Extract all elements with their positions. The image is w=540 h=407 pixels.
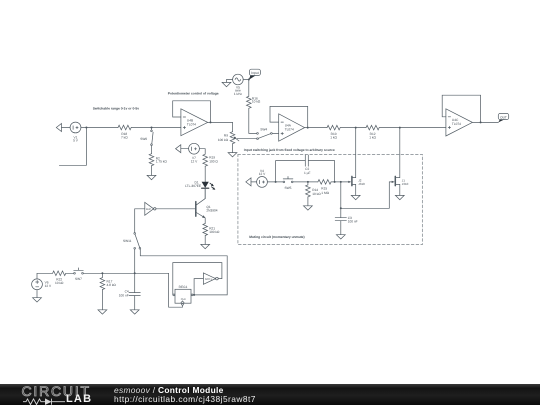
junction V1 stub (85, 127, 87, 129)
svg-text:1.75 kΩ: 1.75 kΩ (156, 160, 168, 164)
wire U4B output (208, 121, 233, 123)
svg-text:Potentiometer control of volta: Potentiometer control of voltage (168, 92, 219, 96)
wire R9 to ground (232, 144, 234, 153)
resistor R14 (306, 182, 311, 197)
dashed selection box (238, 154, 423, 244)
wire SW11 lower-left to button node (134, 249, 136, 273)
wire R15 to J2 gate (331, 181, 348, 183)
wire R19 to LED D1 (204, 166, 206, 182)
ground below R17 (98, 310, 107, 314)
op-amp U4C output stage (446, 109, 473, 136)
wire U4A feedback loop (270, 106, 308, 127)
svg-text:1 kΩ: 1 kΩ (330, 135, 337, 139)
junction Input node (248, 79, 250, 81)
footer url (114, 394, 256, 404)
wire R12 to U4C plus input (379, 127, 446, 129)
JFET J1 (394, 176, 396, 185)
junction SW0 branch (151, 127, 153, 129)
svg-text:12 V: 12 V (191, 159, 198, 163)
buffer BUF1 (145, 202, 154, 215)
wire SW5 to R15 (293, 181, 318, 183)
junction C2 branch (275, 181, 277, 183)
op-amp U4B (181, 109, 208, 136)
footer title (114, 385, 224, 395)
junction U4B output (210, 121, 212, 123)
ground below J1 source (395, 195, 404, 199)
logo resistor-diode squiggle (23, 397, 69, 407)
junction J1 drain node (399, 127, 401, 129)
wire C3 node down and across to J1 gate (341, 182, 392, 208)
wire U4C output (472, 121, 498, 123)
wire stub down-left from V1 node (59, 128, 86, 166)
wire REG1 D input feedback loop (173, 263, 222, 295)
resistor R12 (366, 125, 379, 130)
svg-text:5 V: 5 V (73, 139, 79, 143)
wire LED to Q1 collector (204, 188, 206, 199)
ground below R2 (147, 175, 156, 179)
svg-text:100 nF: 100 nF (348, 220, 358, 224)
resistor R18 (118, 125, 131, 130)
wire U4C feedback loop (442, 95, 480, 122)
ground below J2 source (351, 195, 360, 199)
wire R18 to U4B plus input (131, 127, 181, 129)
wire REG1 Q to loop (140, 249, 227, 295)
switch SW11 (134, 233, 136, 235)
label J2 J310 (358, 178, 365, 186)
wire V7 to R19 (199, 149, 205, 155)
svg-text:7 kΩ: 7 kΩ (121, 135, 128, 139)
wire R17 to ground (101, 290, 103, 310)
wire port to V4 (251, 181, 257, 183)
resistor R15 (318, 180, 331, 185)
voltage source V1 (70, 122, 81, 133)
capacitor C4 (129, 293, 140, 296)
svg-text:J310: J310 (402, 182, 409, 186)
wire NOT1 input from Q node (194, 279, 203, 295)
label SW4 (260, 128, 267, 132)
svg-text:1 kHz: 1 kHz (234, 92, 243, 96)
wire port to V1 (62, 127, 71, 129)
resistor R22 (53, 271, 66, 276)
wire BUF1 to Q1 base (156, 208, 195, 210)
svg-text:CLK: CLK (181, 298, 186, 301)
svg-text:J310: J310 (358, 182, 365, 186)
junction U4A output (307, 127, 309, 129)
ground below R14 (304, 206, 313, 210)
resistor R16 (247, 96, 252, 108)
wire SW4 to U4A plus input (272, 132, 278, 134)
wire R21 to ground (204, 236, 206, 245)
ground below R21 (201, 244, 210, 248)
svg-text:12 V: 12 V (259, 172, 266, 176)
port arrow at V4 (246, 178, 251, 186)
flag Input (249, 75, 256, 79)
logo CIRCUIT (22, 383, 91, 399)
JFET J2 gate arrow (348, 181, 351, 183)
svg-text:10 kΩ: 10 kΩ (55, 281, 64, 285)
wire port to V7 (181, 148, 189, 150)
wire SW7 to REG1 clock path (83, 272, 168, 274)
wire C4 (134, 273, 136, 292)
pushbutton SW7 (74, 272, 76, 274)
JFET J2 (351, 176, 353, 185)
port arrow at V7 (176, 145, 181, 153)
wire SW0 to R2 (151, 146, 153, 154)
resistor R21 (203, 224, 208, 236)
footer bar (0, 384, 540, 405)
svg-text:TL074: TL074 (285, 128, 294, 132)
wire R10 to R12 (340, 127, 366, 129)
label V5 sine 1 kHz (234, 85, 243, 96)
capacitor C3 (335, 218, 346, 221)
voltage source V4 (257, 177, 268, 188)
label J1 J310 (402, 178, 409, 186)
wire R14 to ground (307, 197, 309, 206)
potentiometer R9 (230, 132, 235, 144)
resistor R17 (100, 273, 105, 289)
label V4 12 V (259, 169, 266, 176)
switch SW0 (151, 130, 153, 132)
label SW0 (140, 137, 147, 141)
svg-text:12 V: 12 V (45, 284, 52, 288)
label D1 LTL-307EE (185, 180, 201, 188)
wire C4 to ground (134, 296, 136, 310)
junction Q node (193, 294, 195, 296)
label V1 5 V (73, 135, 79, 142)
wire R2 to ground (151, 166, 153, 176)
ground below R9 (228, 153, 237, 157)
junction C3 top (340, 207, 342, 209)
LED D1 (202, 182, 209, 188)
wire U4A output to R10 (305, 127, 327, 129)
junction C4 / SW11 branch (134, 272, 136, 274)
wire button node to REG1 clock (169, 273, 183, 307)
wire V1 to R18 (81, 127, 118, 129)
wire R16 to Input node (248, 80, 250, 97)
flip-flop REG1 (175, 289, 191, 303)
junction C3 branch (340, 181, 342, 183)
svg-text:OUT: OUT (500, 115, 507, 119)
ground at V5 (222, 82, 231, 86)
resistor R2 (149, 154, 154, 166)
svg-text:10 kΩ: 10 kΩ (252, 100, 261, 104)
svg-text:REG1: REG1 (179, 285, 188, 289)
wire C3 to ground (340, 221, 342, 235)
svg-text:1 MΩ: 1 MΩ (321, 191, 329, 195)
wire V6 to ground (36, 290, 38, 298)
port arrow at V1 negative terminal (56, 124, 61, 132)
junction U4C output (480, 121, 482, 123)
svg-text:TL074: TL074 (452, 122, 461, 126)
note: muting circuit text (249, 235, 304, 239)
ground below V6 (33, 298, 42, 302)
svg-text:SW0: SW0 (140, 137, 147, 141)
switch SW4 (257, 133, 259, 135)
label R16 10 kOhm (252, 96, 261, 103)
inverter NOT1 (203, 273, 215, 284)
wire SW4 upper terminal to R16 (249, 108, 257, 133)
JFET J1 gate arrow (392, 181, 395, 183)
svg-text:1 kΩ: 1 kΩ (369, 135, 376, 139)
wire output down to pot R9 (232, 122, 234, 131)
wire pot wiper to SW4 (237, 138, 257, 140)
wire R22 to SW7 (66, 272, 74, 274)
voltage source V7 (189, 143, 200, 154)
wire C2 loop left and top (276, 161, 306, 182)
svg-text:TL074: TL074 (187, 122, 196, 126)
wire C2 loop right (308, 161, 334, 182)
svg-text:SW4: SW4 (260, 128, 267, 132)
wire V6 to R22 (37, 273, 53, 279)
svg-text:100 kΩ: 100 kΩ (218, 138, 229, 142)
junction R14 branch (307, 181, 309, 183)
junction R17 branch (101, 272, 103, 274)
note: switchable range text (93, 106, 140, 110)
label V6 12 V (45, 281, 52, 289)
svg-text:Switchable range 0-1v or 0-5v: Switchable range 0-1v or 0-5v (93, 106, 140, 110)
note: potentiometer control of voltage (168, 92, 219, 96)
wire V4 to SW5 (267, 181, 283, 183)
svg-text:LTL-307EE: LTL-307EE (185, 184, 201, 188)
svg-text:NOT1: NOT1 (205, 278, 212, 281)
flag OUT (498, 119, 504, 122)
wire SW11 common up to BUF input (135, 209, 145, 233)
note: input switching jack text (244, 148, 335, 152)
voltage source V5 sine (233, 74, 244, 85)
wire V5 to ground (227, 80, 233, 83)
svg-text:Input switching jack from fixe: Input switching jack from fixed voltage … (244, 148, 335, 152)
resistor R10 (327, 125, 340, 130)
svg-text:4.8 kΩ: 4.8 kΩ (107, 283, 117, 287)
wire V5 to Input node (243, 79, 249, 81)
transistor Q1 (195, 202, 197, 217)
wire C3 (340, 208, 342, 217)
svg-text:100 nF: 100 nF (119, 294, 129, 298)
ground below C4 (130, 310, 139, 314)
svg-text:SW5: SW5 (285, 186, 292, 190)
label R9 100 kOhm (218, 134, 229, 142)
svg-text:100 Ω: 100 Ω (209, 159, 218, 163)
voltage source V6 (32, 279, 43, 290)
svg-text:SW7: SW7 (75, 277, 82, 281)
logo LAB (66, 393, 92, 405)
resistor R19 (203, 154, 208, 166)
ground below C3 (336, 235, 345, 239)
wire U4B feedback loop (173, 101, 211, 123)
wire junction to SW0 (151, 128, 153, 131)
svg-text:SW11: SW11 (123, 239, 132, 243)
pushbutton SW5 (283, 181, 285, 183)
svg-text:2N3904: 2N3904 (206, 208, 217, 212)
junction C2 right (334, 181, 336, 183)
junction J2 drain node (355, 127, 357, 129)
svg-text:Muting circuit (momentary unmu: Muting circuit (momentary unmute) (249, 235, 304, 239)
svg-text:10 kΩ: 10 kΩ (312, 192, 321, 196)
svg-text:100 kΩ: 100 kΩ (209, 230, 220, 234)
label R2 1.75 kOhm (156, 156, 168, 163)
capacitor C2 (305, 155, 308, 166)
svg-text:Input: Input (251, 71, 259, 75)
label V7 12 V (191, 156, 198, 163)
svg-text:1 µF: 1 µF (304, 171, 310, 175)
label R18 7 kOhm (121, 132, 128, 139)
op-amp U4A (279, 114, 305, 141)
svg-text:BUF: BUF (146, 208, 151, 211)
